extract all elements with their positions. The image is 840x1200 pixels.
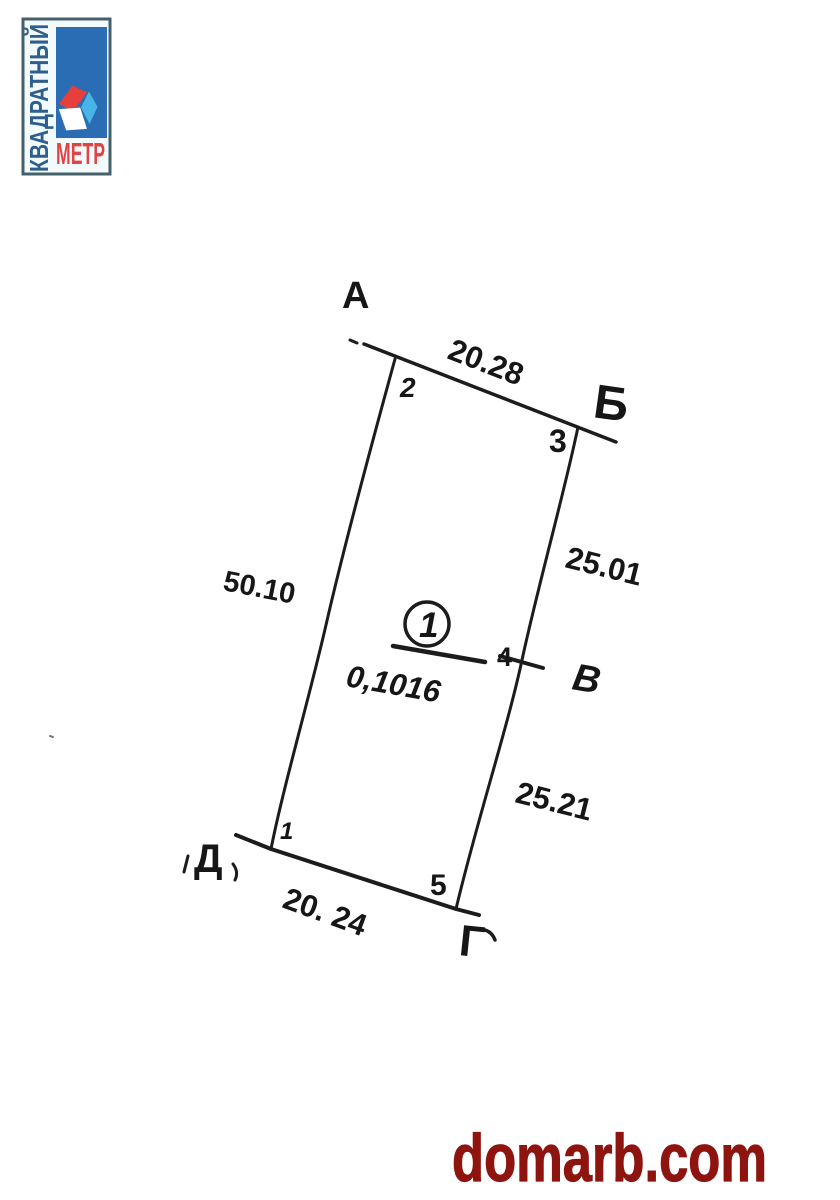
boundary line А-Б (top) xyxy=(364,344,616,442)
svg-text:2: 2 xyxy=(399,372,416,403)
logo frame xyxy=(23,19,110,174)
tick at А end xyxy=(350,340,357,343)
svg-text:20.28: 20.28 xyxy=(443,332,528,392)
svg-text:Б: Б xyxy=(590,375,632,432)
boundary line Б-Г (right) xyxy=(456,427,578,909)
logo cube white face xyxy=(59,108,87,131)
svg-text:25.21: 25.21 xyxy=(512,775,596,828)
tick at vertex 4 xyxy=(500,656,543,668)
paper speck xyxy=(50,736,53,737)
boundary line А-Д (left) xyxy=(271,359,395,849)
svg-text:domarb.com: domarb.com xyxy=(452,1121,767,1196)
stray mark right of Д xyxy=(233,864,237,880)
Г top bar swash xyxy=(478,929,495,940)
svg-text:В: В xyxy=(569,657,603,703)
svg-text:50.10: 50.10 xyxy=(221,565,298,610)
svg-text:5: 5 xyxy=(430,869,447,902)
parcel number circle xyxy=(405,602,449,646)
logo cube light blue face xyxy=(81,92,98,125)
svg-text:3: 3 xyxy=(549,423,567,459)
svg-text:0,1016: 0,1016 xyxy=(344,658,444,709)
svg-text:20. 24: 20. 24 xyxy=(279,881,373,944)
svg-text:КВАДРАТНЫЙ: КВАДРАТНЫЙ xyxy=(24,24,54,172)
stray mark left of Д xyxy=(184,856,188,872)
svg-text:МЕТР: МЕТР xyxy=(56,136,105,171)
logo cube red face xyxy=(59,86,87,112)
svg-text:Д: Д xyxy=(194,837,223,881)
underline below parcel circle xyxy=(393,646,485,662)
svg-text:4: 4 xyxy=(497,642,512,672)
svg-text:Г: Г xyxy=(457,916,487,967)
svg-text:А: А xyxy=(342,275,369,317)
boundary line Д-Г (bottom) xyxy=(236,835,479,915)
logo blue square xyxy=(56,27,107,138)
svg-text:1: 1 xyxy=(419,606,438,645)
svg-text:25.01: 25.01 xyxy=(562,540,646,593)
svg-text:1: 1 xyxy=(280,818,293,845)
